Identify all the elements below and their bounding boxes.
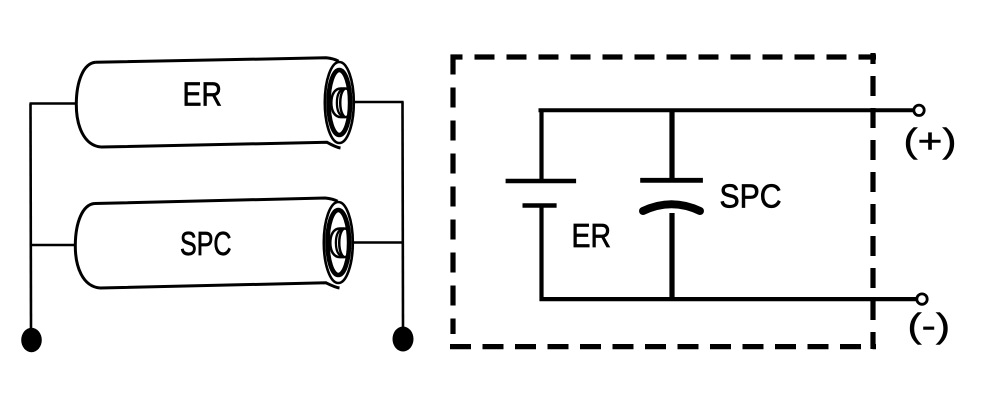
battery SPC end cap (324, 202, 353, 283)
label (+) (904, 122, 957, 160)
label (-) (908, 307, 951, 345)
label SPC (pictorial) (180, 225, 232, 262)
terminal dot left (21, 328, 42, 352)
wire: ER left lead (30, 102, 78, 105)
svg-text:ER: ER (183, 76, 223, 113)
battery ER pictorial body (76, 58, 340, 148)
terminal (-) circle (917, 294, 927, 304)
capacitor SPC symbol (640, 109, 703, 302)
battery SPC terminal button (330, 228, 350, 257)
terminal (+) circle (914, 105, 924, 115)
wire: ER right lead (354, 101, 404, 104)
wire: right vertical bus (401, 102, 404, 328)
svg-text:(-): (-) (908, 307, 951, 345)
label ER (schematic) (572, 217, 612, 254)
wire: schematic top rail (539, 108, 914, 112)
svg-text:ER: ER (572, 217, 612, 254)
wire: SPC left lead (30, 244, 77, 247)
battery ER terminal button (331, 89, 351, 118)
label SPC (schematic) (720, 177, 782, 214)
battery SPC pictorial body (75, 198, 339, 288)
label ER (pictorial) (183, 76, 223, 113)
svg-text:SPC: SPC (720, 177, 782, 214)
wire: schematic bottom rail (540, 297, 917, 301)
svg-text:SPC: SPC (180, 225, 232, 262)
wire: left vertical bus (29, 104, 32, 329)
svg-text:(+): (+) (904, 122, 957, 160)
wire: SPC right lead (352, 241, 404, 244)
dashed enclosure box (450, 53, 876, 349)
battery ER symbol (506, 109, 576, 302)
terminal dot right (393, 327, 414, 352)
battery ER end cap (325, 62, 354, 143)
